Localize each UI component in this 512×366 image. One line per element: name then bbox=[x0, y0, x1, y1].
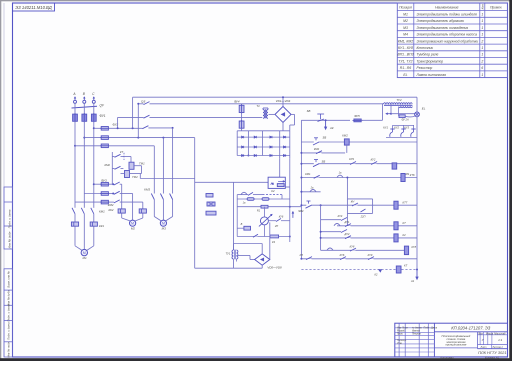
svg-text:КК2: КК2 bbox=[108, 208, 113, 212]
svg-text:1: 1 bbox=[481, 13, 483, 17]
contact KM3-3 bbox=[172, 194, 174, 199]
phase terminal A bbox=[74, 100, 77, 103]
svg-text:22П: 22П bbox=[360, 215, 366, 219]
wire lamp feed bbox=[391, 113, 415, 115]
svg-text:АК: АК bbox=[329, 126, 334, 130]
svg-text:Взам. инв №: Взам. инв № bbox=[7, 271, 11, 288]
wire to thermals M1 bbox=[74, 214, 76, 222]
rung fuse FU5 bbox=[301, 119, 350, 121]
wire phase A upper bbox=[74, 103, 76, 114]
svg-text:SB: SB bbox=[322, 160, 326, 164]
svg-text:1: 1 bbox=[481, 53, 483, 57]
wire phase C upper bbox=[93, 103, 95, 114]
svg-text:Инв № подл.: Инв № подл. bbox=[7, 341, 11, 358]
switch QS pole3 bbox=[143, 128, 148, 130]
wire bus A bbox=[109, 145, 154, 147]
button SB1 bbox=[320, 114, 322, 119]
svg-text:Тумблер реле: Тумблер реле bbox=[417, 53, 439, 57]
wire M2 join bbox=[121, 213, 123, 218]
coil TM1 bbox=[124, 156, 131, 158]
svg-text:ДУ1: ДУ1 bbox=[344, 220, 350, 224]
diode block top rail bbox=[237, 130, 290, 132]
svg-text:КМ2: КМ2 bbox=[104, 163, 110, 167]
center block bottom bbox=[195, 267, 234, 269]
wire bus B bbox=[109, 137, 194, 139]
svg-text:А1: А1 bbox=[410, 279, 415, 283]
transformer T1 top bbox=[263, 110, 264, 119]
svg-text:КМ2: КМ2 bbox=[314, 147, 320, 151]
svg-text:ФУ4: ФУ4 bbox=[234, 100, 240, 104]
small rect lower bbox=[206, 211, 216, 215]
svg-text:КМ1, КМ2: КМ1, КМ2 bbox=[398, 39, 413, 43]
svg-text:КМ1: КМ1 bbox=[99, 210, 105, 214]
dashed coil KT bbox=[396, 266, 401, 273]
wire bus2 left drop bbox=[137, 104, 139, 138]
wire bridge left bbox=[269, 113, 276, 115]
svg-text:SB: SB bbox=[307, 109, 311, 113]
svg-text:Трансформатор: Трансформатор bbox=[417, 59, 444, 63]
wire bus C right bbox=[148, 127, 172, 129]
svg-text:Петров: Петров bbox=[412, 334, 421, 336]
svg-text:КУ9: КУ9 bbox=[368, 253, 373, 257]
svg-text:КУ1: КУ1 bbox=[383, 126, 388, 130]
svg-text:КУ9: КУ9 bbox=[349, 157, 354, 161]
svg-text:VD5—VD8: VD5—VD8 bbox=[267, 266, 282, 270]
wire phase B down bbox=[83, 121, 85, 208]
coil K center bbox=[244, 226, 251, 230]
arrow AK bbox=[325, 119, 327, 121]
svg-text:2П: 2П bbox=[299, 253, 303, 257]
wire row194 solid bbox=[237, 194, 248, 196]
rung 3 bbox=[301, 163, 417, 165]
fuse FU2-A bbox=[101, 144, 108, 148]
svg-text:EL: EL bbox=[422, 106, 426, 110]
fuse FU6 bbox=[398, 107, 400, 116]
diode block column 3 bbox=[262, 131, 264, 156]
node B tap bbox=[83, 137, 85, 139]
svg-text:Примеч.: Примеч. bbox=[490, 6, 502, 10]
diode block column 4 bbox=[279, 131, 281, 159]
wire phase A down bbox=[74, 121, 76, 208]
doc code box bbox=[13, 3, 55, 11]
motor M2 bbox=[130, 220, 136, 226]
wire box to rail bbox=[285, 186, 290, 188]
fuse FU1-B bbox=[82, 114, 87, 121]
timer box wires right bbox=[134, 165, 142, 167]
rung 7b stub bbox=[321, 231, 341, 233]
fuse FU2-B bbox=[101, 136, 108, 140]
svg-text:Электромагнит наружной обработ: Электромагнит наружной обработки bbox=[417, 39, 479, 43]
svg-text:Электродвигатель охлаждения: Электродвигатель охлаждения bbox=[417, 26, 469, 30]
wire bridge bottom bbox=[282, 122, 284, 130]
svg-text:1: 1 bbox=[481, 46, 483, 50]
svg-text:КУ8: КУ8 bbox=[350, 244, 355, 248]
svg-text:Масштаб: Масштаб bbox=[494, 332, 506, 335]
diode row 1 bbox=[237, 136, 290, 138]
svg-text:КТ: КТ bbox=[404, 264, 408, 268]
svg-text:ДУ2: ДУ2 bbox=[344, 232, 350, 236]
svg-text:2: 2 bbox=[480, 39, 483, 43]
svg-text:Подп. и дата: Подп. и дата bbox=[7, 322, 11, 340]
svg-text:КУ3: КУ3 bbox=[404, 126, 409, 130]
svg-text:КТ8: КТ8 bbox=[412, 245, 417, 249]
lamp EL bbox=[415, 112, 420, 117]
svg-text:ФУ 2А: ФУ 2А bbox=[402, 119, 409, 122]
svg-text:КТ7: КТ7 bbox=[403, 200, 408, 204]
diode row 3 bbox=[237, 155, 290, 157]
rung 4 bbox=[301, 177, 417, 179]
svg-text:Формат А1: Формат А1 bbox=[485, 356, 500, 360]
svg-text:Наименование: Наименование bbox=[435, 6, 459, 10]
fuse FU4 upper bbox=[241, 104, 243, 105]
wire A tap bbox=[75, 145, 101, 147]
svg-text:КУ4: КУ4 bbox=[338, 214, 343, 218]
bus3 feed vertical bbox=[117, 117, 119, 128]
контакт box upper bbox=[347, 198, 372, 200]
contact KM1-1 bbox=[74, 209, 76, 214]
svg-text:1:1: 1:1 bbox=[498, 338, 503, 342]
wire T1 left bbox=[261, 116, 263, 118]
svg-text:R1...R6: R1...R6 bbox=[400, 66, 412, 70]
wire T2c to bridge bbox=[236, 255, 250, 257]
svg-text:Масса: Масса bbox=[486, 332, 494, 335]
transformer T2 main bbox=[382, 104, 384, 121]
wire FU4 to T1 bbox=[241, 113, 243, 122]
rail bottom arrow bbox=[416, 270, 418, 278]
svg-text:Инв № дубл: Инв № дубл bbox=[8, 231, 12, 248]
svg-text:2: 2 bbox=[480, 59, 483, 63]
wire bridge2 top bbox=[261, 244, 263, 254]
thermal KK1-C bbox=[90, 222, 97, 226]
svg-text:КН: КН bbox=[351, 200, 355, 204]
row 236 resistor K3 bbox=[237, 236, 290, 238]
rail x288 center bbox=[289, 158, 291, 242]
svg-text:ТУ1: ТУ1 bbox=[225, 252, 230, 256]
svg-text:Дата: Дата bbox=[430, 328, 438, 330]
node A tap bbox=[74, 145, 76, 147]
wire bus1 left drop bbox=[132, 97, 134, 128]
svg-text:Кнопочник: Кнопочник bbox=[417, 46, 434, 50]
svg-text:КУ2: КУ2 bbox=[371, 158, 376, 162]
center block left col vertical bbox=[236, 195, 238, 237]
svg-text:КМ1: КМ1 bbox=[305, 172, 311, 176]
svg-text:Утв.: Утв. bbox=[397, 343, 403, 345]
rheostat bbox=[263, 207, 265, 217]
fuse FU3-1 bbox=[93, 183, 95, 185]
phase terminal C bbox=[92, 100, 95, 103]
svg-text:SB4: SB4 bbox=[298, 209, 304, 213]
svg-text:2П: 2П bbox=[274, 224, 278, 228]
center block row 243 bbox=[234, 243, 263, 245]
coil TM2 bbox=[125, 171, 130, 178]
svg-text:ВП1...ВП3: ВП1...ВП3 bbox=[397, 53, 413, 57]
contact KM3-2 bbox=[162, 194, 164, 199]
diode block column 5 bbox=[289, 131, 291, 159]
left margin strip lower bbox=[4, 269, 13, 357]
svg-text:№ докум.: № докум. bbox=[412, 327, 422, 330]
timer dashed link bbox=[123, 153, 125, 160]
jog vertical x347 lower bbox=[346, 213, 348, 225]
title block doc cell bbox=[434, 331, 507, 333]
svg-text:Электродвигатель подачи шпинде: Электродвигатель подачи шпинделя bbox=[417, 13, 477, 17]
svg-text:QS: QS bbox=[141, 100, 145, 104]
svg-text:Иванов: Иванов bbox=[412, 331, 421, 333]
bridge VD5-VD8 bbox=[255, 254, 270, 265]
fuse FU1-C bbox=[91, 114, 96, 121]
contact KU6 center bbox=[263, 225, 265, 237]
wire bus C bbox=[109, 127, 142, 129]
wire bus1 top bbox=[133, 96, 417, 98]
svg-text:Лист: Лист bbox=[480, 347, 487, 349]
svg-text:КМ2: КМ2 bbox=[342, 133, 348, 137]
diode block column 2 bbox=[247, 131, 249, 156]
rung 6 bbox=[301, 204, 417, 206]
svg-text:КМ2: КМ2 bbox=[108, 203, 114, 207]
svg-text:ФУ3: ФУ3 bbox=[101, 178, 107, 182]
svg-text:Кол: Кол bbox=[481, 4, 485, 9]
contact KM2-2 bbox=[115, 193, 120, 195]
relay box K2 bbox=[268, 177, 285, 188]
svg-text:КТ: КТ bbox=[403, 221, 407, 225]
svg-text:КМ3: КМ3 bbox=[144, 188, 150, 192]
svg-text:ТУ1, ТУ2: ТУ1, ТУ2 bbox=[398, 59, 412, 63]
center block left edge bbox=[194, 138, 196, 269]
svg-text:Изм: Изм bbox=[397, 328, 402, 330]
fuse FU4 lower bbox=[239, 121, 244, 128]
svg-text:Подп.: Подп. bbox=[424, 327, 430, 330]
svg-text:КУ2: КУ2 bbox=[394, 126, 399, 130]
node bus C x132.6 bbox=[132, 127, 134, 129]
svg-text:М1: М1 bbox=[83, 256, 87, 260]
row 206 resistor bbox=[237, 206, 301, 208]
svg-text:М3: М3 bbox=[162, 227, 166, 231]
svg-text:Позиция: Позиция bbox=[399, 6, 412, 10]
svg-text:ТМ1: ТМ1 bbox=[139, 162, 145, 166]
wire phase C down bbox=[93, 121, 95, 208]
svg-text:ФУ1: ФУ1 bbox=[100, 114, 106, 118]
svg-text:Лит: Лит bbox=[477, 332, 483, 335]
timer box wire left bbox=[111, 152, 113, 184]
bridge VD1-VD4 bbox=[275, 106, 291, 122]
thermal KK2-1 bbox=[118, 209, 125, 213]
contact KM2-1 bbox=[115, 184, 120, 186]
svg-text:M: M bbox=[162, 222, 165, 226]
node bus B x163 bbox=[162, 137, 164, 139]
svg-text:Инв № дубл.: Инв № дубл. bbox=[7, 289, 11, 306]
wire phase B upper bbox=[83, 103, 85, 114]
node C tap bbox=[93, 127, 95, 129]
transformer T2 center bbox=[233, 244, 235, 251]
column down to K2 box bbox=[279, 158, 281, 177]
svg-text:ПЛК НГТУ 3021: ПЛК НГТУ 3021 bbox=[478, 350, 506, 355]
svg-text:КУ1...КУ8: КУ1...КУ8 bbox=[398, 46, 413, 50]
diode block column 1 bbox=[236, 131, 238, 156]
svg-text:М2: М2 bbox=[403, 19, 408, 23]
wire bridge2 bottom bbox=[261, 265, 263, 268]
motor M1 bbox=[81, 249, 87, 255]
svg-text:1: 1 bbox=[481, 19, 483, 23]
wire bridge right bbox=[291, 113, 295, 115]
dashed bottom line bbox=[301, 269, 417, 271]
svg-text:SB: SB bbox=[323, 136, 327, 140]
wire C tap bbox=[94, 127, 101, 129]
svg-text:Электродвигатель оборотов насо: Электродвигатель оборотов насоса bbox=[417, 33, 477, 37]
svg-text:Резистор: Резистор bbox=[417, 66, 433, 70]
contact KM1-3 bbox=[93, 209, 95, 214]
timer contact KM2 bbox=[112, 168, 114, 170]
rectifier КУ1 bbox=[392, 125, 394, 129]
rung 2 bbox=[301, 152, 345, 154]
svg-text:Подп. и дата: Подп. и дата bbox=[8, 209, 12, 228]
rectifier КУ3 bbox=[413, 125, 415, 129]
switch QS pole2 bbox=[118, 116, 144, 118]
svg-text:М3: М3 bbox=[403, 26, 408, 30]
thermal KK2-2 bbox=[139, 209, 146, 213]
transformer T2 arrow tap bbox=[390, 104, 392, 114]
svg-text:Листов 1: Листов 1 bbox=[491, 347, 503, 349]
rung 8 bbox=[337, 225, 417, 227]
svg-text:М4: М4 bbox=[403, 33, 408, 37]
timer output wire bbox=[139, 174, 141, 179]
node bus B x138 bbox=[137, 137, 139, 139]
wire M3 feed 1 bbox=[153, 146, 155, 194]
svg-text:1: 1 bbox=[481, 33, 483, 37]
center block inner vertical bbox=[233, 182, 235, 250]
rung 9 bbox=[321, 237, 417, 239]
rectifier row line bbox=[393, 124, 415, 126]
svg-text:Н.контр.: Н.контр. bbox=[397, 340, 407, 342]
svg-text:Лампа сигнальная: Лампа сигнальная bbox=[416, 73, 447, 77]
svg-text:КК1: КК1 bbox=[99, 224, 104, 228]
wire fuse to lamp curve bbox=[405, 115, 415, 118]
switch QS pole1 bus2 bbox=[138, 103, 143, 105]
svg-text:КП.0204-171207. ЭЗ: КП.0204-171207. ЭЗ bbox=[451, 325, 491, 330]
svg-text:1: 1 bbox=[481, 73, 483, 77]
wire M3 feed 2 bbox=[162, 138, 164, 194]
timer contact KT bbox=[112, 156, 114, 158]
jog vertical x347 upper bbox=[346, 178, 348, 199]
svg-text:КТ6: КТ6 bbox=[410, 173, 415, 177]
wire bus1 drop to lamp bbox=[416, 97, 418, 112]
wire bridge2 right bbox=[269, 222, 271, 259]
svg-text:2а: 2а bbox=[310, 186, 314, 189]
svg-text:M: M bbox=[131, 222, 134, 226]
rectifier collector line bbox=[386, 136, 417, 138]
sheet edge shadows bbox=[0, 0, 512, 1]
dashed link center bbox=[263, 194, 283, 196]
small rect mid bbox=[207, 202, 215, 206]
small rect upper bbox=[206, 194, 213, 198]
contact KM1-2 bbox=[83, 209, 85, 214]
rung 5 bbox=[301, 191, 320, 193]
svg-text:К2: К2 bbox=[271, 189, 275, 193]
svg-text:ТМ2: ТМ2 bbox=[132, 175, 138, 179]
wire M1 join bbox=[74, 226, 76, 246]
title block right section bbox=[477, 332, 479, 349]
contact KM3-1 bbox=[153, 194, 155, 199]
diode row 2 bbox=[237, 146, 290, 148]
left margin strip upper bbox=[4, 187, 13, 249]
switch QF bar bbox=[72, 106, 98, 108]
svg-text:КТ: КТ bbox=[120, 150, 124, 154]
svg-text:Разраб.: Разраб. bbox=[397, 331, 406, 333]
svg-text:К2: К2 bbox=[403, 233, 407, 237]
up arrow center bbox=[292, 213, 294, 218]
resistor R2 with arrow bbox=[277, 184, 284, 187]
rung 7 stub bbox=[321, 219, 341, 221]
wire M3 join bbox=[153, 200, 155, 217]
svg-text:A: A bbox=[72, 92, 75, 96]
parts table bbox=[397, 3, 507, 78]
svg-text:ТУ2: ТУ2 bbox=[396, 98, 402, 102]
svg-text:EL: EL bbox=[403, 73, 407, 77]
svg-text:КУ6: КУ6 bbox=[279, 216, 284, 219]
svg-text:Пров.: Пров. bbox=[397, 334, 403, 336]
rung 10 bbox=[321, 249, 404, 251]
svg-text:Т1: Т1 bbox=[256, 104, 260, 108]
ladder right rail bbox=[416, 117, 418, 270]
wire M3 feed 3 bbox=[172, 128, 174, 194]
svg-text:6: 6 bbox=[481, 66, 483, 70]
rung 1 KM2 coil bbox=[301, 141, 417, 143]
svg-text:M: M bbox=[83, 251, 86, 255]
outer thin border bbox=[3, 3, 5, 357]
wire B tap bbox=[84, 137, 100, 139]
title block bbox=[395, 323, 508, 357]
fuse FU3-2 bbox=[84, 193, 101, 195]
svg-text:М1: М1 bbox=[403, 13, 408, 17]
rung 11 bbox=[301, 258, 417, 260]
node diode row bbox=[247, 155, 249, 157]
contact KM2-3 bbox=[115, 202, 120, 204]
ladder left rail bbox=[300, 120, 302, 258]
svg-text:ЭЗ 140211.М10.ВД: ЭЗ 140211.М10.ВД bbox=[15, 5, 51, 10]
center block top inner bbox=[195, 181, 268, 183]
svg-text:КУ6: КУ6 bbox=[340, 253, 345, 257]
svg-text:М2: М2 bbox=[131, 227, 135, 231]
thermal KK1-A bbox=[71, 222, 78, 226]
svg-text:принципиальная: принципиальная bbox=[446, 344, 467, 347]
svg-text:Лист: Лист bbox=[401, 328, 408, 330]
motor M3 bbox=[160, 220, 166, 226]
rectifier КУ2 bbox=[403, 125, 405, 129]
jog rail x320 bbox=[320, 205, 322, 250]
oval row bbox=[237, 198, 290, 200]
fuse FU3-3 bbox=[75, 201, 101, 203]
svg-text:Электродвигатель абразива: Электродвигатель абразива bbox=[417, 19, 464, 23]
svg-text:Копировал: Копировал bbox=[441, 356, 454, 360]
phase terminal B bbox=[83, 100, 86, 103]
fuse FU1-A bbox=[73, 114, 78, 121]
svg-text:ФУ5: ФУ5 bbox=[354, 114, 360, 118]
wire bridge top bbox=[282, 97, 284, 106]
rung6 coil bbox=[394, 201, 398, 209]
svg-text:Подп. и дата: Подп. и дата bbox=[7, 304, 11, 322]
wire T2c bottom bbox=[235, 259, 237, 262]
svg-text:1: 1 bbox=[481, 26, 483, 30]
fuse FU2-C bbox=[101, 127, 108, 131]
